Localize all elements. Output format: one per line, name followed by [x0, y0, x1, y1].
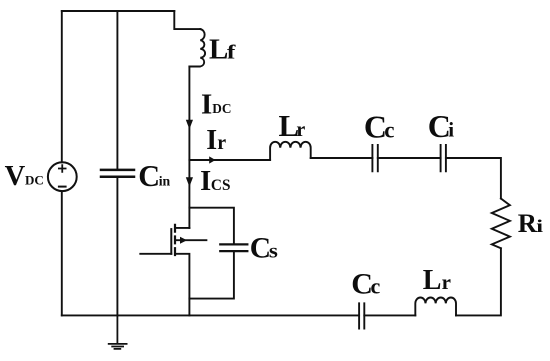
- svg-text:f: f: [227, 42, 236, 64]
- arrow IDC: [186, 120, 193, 129]
- ground: [109, 315, 127, 349]
- capacitor Cc bottom: [359, 303, 364, 328]
- label ICS: [200, 166, 230, 197]
- capacitor Ci: [441, 145, 446, 171]
- label Lf: [209, 34, 236, 66]
- svg-text:I: I: [201, 89, 212, 121]
- wire drain vertical: [188, 67, 190, 228]
- svg-text:I: I: [206, 125, 217, 156]
- label Cc top: [364, 109, 395, 145]
- svg-text:I: I: [200, 166, 211, 197]
- svg-text:C: C: [250, 233, 271, 265]
- label Lr bottom: [423, 265, 451, 296]
- inductor Lr bottom: [415, 297, 456, 315]
- svg-text:c: c: [384, 118, 394, 143]
- wire Cc to Ci: [378, 157, 441, 159]
- label IDC: [201, 89, 232, 121]
- wire Cs branch top: [189, 208, 234, 244]
- svg-text:r: r: [296, 119, 305, 141]
- svg-text:i: i: [536, 216, 543, 236]
- VDC plus sign: [59, 165, 66, 172]
- wire Ir tap: [189, 159, 270, 161]
- capacitor Cc top: [372, 145, 377, 171]
- svg-text:V: V: [5, 161, 26, 192]
- svg-text:s: s: [269, 241, 278, 263]
- mosfet Q1 body line: [175, 239, 206, 241]
- mosfet Q1 drain lead: [175, 227, 189, 229]
- capacitor Cin: [101, 170, 134, 177]
- label Ir: [206, 125, 226, 156]
- svg-text:r: r: [217, 132, 226, 154]
- label Ci: [428, 108, 454, 144]
- svg-text:L: L: [209, 34, 228, 66]
- wire VDC bottom lead: [61, 191, 63, 315]
- capacitor Cs: [220, 244, 247, 251]
- inductor Lf: [189, 29, 205, 66]
- wire top bus: [62, 10, 175, 12]
- resistor Ri: [492, 199, 510, 249]
- wire Cin branch top: [116, 11, 118, 169]
- VDC minus sign: [59, 186, 66, 188]
- wire Cin branch bottom: [116, 178, 118, 315]
- wire VDC top lead: [61, 11, 63, 162]
- svg-text:CS: CS: [211, 177, 231, 194]
- wire bottom rail left: [62, 314, 359, 316]
- mosfet Q1 body arrow: [180, 237, 187, 244]
- mosfet Q1 source lead: [175, 254, 189, 316]
- label Cin: [138, 159, 170, 193]
- svg-text:L: L: [423, 265, 442, 296]
- label Cc bottom: [351, 268, 380, 301]
- svg-text:i: i: [448, 118, 454, 142]
- label Cs: [250, 233, 278, 265]
- wire Lr to Cc: [311, 157, 373, 159]
- mosfet Q1 gate bar: [170, 229, 172, 254]
- label Lr top: [279, 108, 306, 143]
- wire Cs branch bottom: [189, 252, 234, 298]
- svg-text:R: R: [518, 208, 538, 238]
- wire Lr to Cc bottom: [364, 314, 415, 316]
- inductor Lr top: [270, 142, 311, 160]
- svg-text:C: C: [138, 159, 160, 193]
- svg-text:c: c: [371, 274, 381, 299]
- svg-text:in: in: [159, 173, 171, 188]
- wire Ci to corner: [446, 158, 501, 199]
- arrow Ir: [209, 156, 215, 163]
- mosfet Q1 channel dashes: [174, 225, 176, 255]
- arrow ICS: [186, 177, 193, 187]
- label Ri: [518, 208, 543, 238]
- source VDC circle: [48, 162, 77, 191]
- wire step to Lf: [174, 11, 200, 29]
- svg-text:r: r: [442, 270, 451, 294]
- mosfet Q1 gate lead: [140, 253, 171, 255]
- label VDC: [5, 161, 44, 192]
- wire Ri bottom lead: [456, 248, 501, 315]
- svg-text:DC: DC: [212, 101, 231, 116]
- svg-text:DC: DC: [25, 173, 44, 188]
